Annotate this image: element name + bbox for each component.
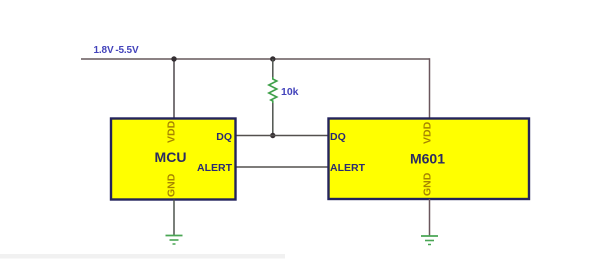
svg-text:VDD: VDD	[166, 120, 178, 143]
svg-text:VDD: VDD	[422, 121, 434, 144]
wire MCU VDD vertical	[173, 59, 175, 119]
svg-text:DQ: DQ	[330, 131, 346, 143]
ground symbol below M601	[421, 236, 438, 245]
wire ALERT net MCU to M601	[236, 166, 328, 168]
wire DQ net MCU to M601	[236, 135, 328, 137]
svg-text:ALERT: ALERT	[197, 162, 233, 174]
node junction resistor bottom / DQ wire	[270, 133, 275, 138]
svg-text:DQ: DQ	[216, 131, 232, 143]
node junction rail / resistor top	[270, 56, 275, 61]
component U1 MCU box	[111, 119, 236, 200]
wire power rail horizontal	[81, 58, 430, 60]
svg-text:10k: 10k	[281, 86, 299, 98]
wire M601 VDD vertical	[429, 58, 431, 119]
svg-text:GND: GND	[166, 173, 178, 197]
resistor R1 10k pull-up	[269, 59, 277, 136]
svg-text:GND: GND	[422, 172, 434, 196]
node junction rail / MCU VDD	[171, 56, 176, 61]
component U2 M601 box	[329, 119, 530, 200]
ground symbol below MCU	[166, 236, 183, 245]
svg-text:ALERT: ALERT	[330, 162, 366, 174]
wire MCU GND vertical	[173, 200, 175, 236]
faint scan band bottom-left (decorative)	[0, 254, 285, 259]
svg-text:1.8V -5.5V: 1.8V -5.5V	[94, 45, 139, 56]
wire M601 GND vertical	[429, 199, 431, 236]
svg-text:MCU: MCU	[155, 149, 187, 165]
svg-text:M601: M601	[410, 151, 445, 167]
